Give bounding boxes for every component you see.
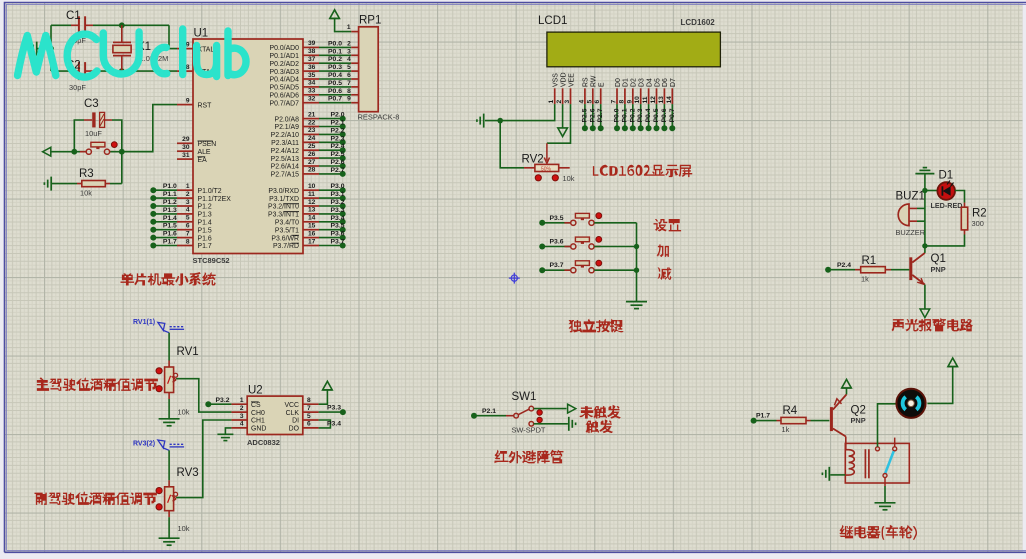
wire R4 to Q2 base bbox=[811, 420, 830, 422]
svg-text:P3.3: P3.3 bbox=[331, 207, 345, 214]
U1 pin number 21 bbox=[308, 111, 316, 118]
U1 pin name P1.7 bbox=[198, 243, 212, 250]
wire R3 top vertical bbox=[121, 152, 123, 184]
svg-text:P2.3: P2.3 bbox=[331, 135, 345, 142]
RP1 pin number 9 bbox=[347, 96, 351, 103]
wire reset left segment bbox=[51, 151, 86, 153]
svg-text:DO: DO bbox=[289, 426, 300, 433]
RP1 pin number 4 bbox=[347, 56, 351, 63]
net label P0.5 bbox=[653, 108, 660, 122]
LCD1 pin 8 D1 bbox=[624, 88, 626, 104]
svg-text:12: 12 bbox=[308, 199, 316, 206]
wire P3.2 terminal bbox=[319, 205, 343, 207]
net label P3.5 key bbox=[550, 215, 564, 222]
LCD1 pin name D2 bbox=[631, 78, 638, 87]
ground keys bus bbox=[626, 302, 647, 309]
svg-text:1: 1 bbox=[186, 183, 190, 190]
capacitor C3 electrolytic bbox=[84, 112, 112, 127]
LCD1 pin number 4 bbox=[578, 100, 585, 104]
wire BUZ1 pin2 to node column bbox=[917, 220, 925, 222]
value LED-RED bbox=[931, 201, 963, 210]
svg-text:P3.4: P3.4 bbox=[327, 421, 341, 428]
svg-text:R2: R2 bbox=[972, 208, 987, 220]
svg-text:VEE: VEE bbox=[568, 73, 575, 87]
svg-text:26: 26 bbox=[308, 151, 316, 158]
U2 pin name CS bbox=[251, 402, 261, 409]
svg-text:1: 1 bbox=[240, 397, 244, 404]
svg-text:4: 4 bbox=[240, 421, 244, 428]
U2 pin number 7 bbox=[307, 405, 311, 412]
svg-text:9: 9 bbox=[626, 100, 633, 104]
svg-text:VDD: VDD bbox=[560, 72, 567, 87]
wire Q1 emitter down bbox=[924, 285, 926, 309]
U1 pin number 3 bbox=[186, 199, 190, 206]
svg-text:P2.0/A8: P2.0/A8 bbox=[274, 116, 299, 123]
svg-text:RV3: RV3 bbox=[177, 467, 199, 479]
U1 pin number 12 bbox=[308, 199, 316, 206]
U1 pin name P0.7/AD7 bbox=[270, 100, 300, 107]
svg-text:P1.0/T2: P1.0/T2 bbox=[198, 188, 222, 195]
wire P2.4 terminal bbox=[319, 149, 343, 151]
wire P2.2 terminal bbox=[319, 133, 343, 135]
RV2 decrement marker bbox=[535, 175, 541, 181]
svg-text:P3.2: P3.2 bbox=[216, 397, 230, 404]
U1 pin 17 P3.7/RD bbox=[303, 245, 319, 247]
node P3.3 terminal bbox=[340, 409, 346, 415]
svg-text:P2.1: P2.1 bbox=[482, 408, 496, 415]
U1 pin number 37 bbox=[308, 56, 316, 63]
svg-text:27: 27 bbox=[308, 159, 316, 166]
label X1 bbox=[137, 41, 151, 53]
wire P1.6 terminal bbox=[153, 237, 177, 239]
svg-text:1: 1 bbox=[347, 24, 351, 31]
U2 pin number 5 bbox=[307, 413, 311, 420]
wire keys common bus bbox=[636, 223, 638, 302]
svg-text:P0.1/AD1: P0.1/AD1 bbox=[270, 53, 300, 60]
wire buzzer vertical node bbox=[924, 191, 926, 246]
node P3.0 terminal bbox=[340, 187, 346, 193]
value RV3 10k bbox=[178, 524, 190, 533]
svg-text:P3.5: P3.5 bbox=[331, 223, 345, 230]
svg-text:1k: 1k bbox=[861, 275, 869, 284]
LCD1 pin name E bbox=[599, 82, 606, 87]
svg-text:25: 25 bbox=[308, 143, 316, 150]
svg-text:P2.6/A14: P2.6/A14 bbox=[271, 164, 300, 171]
svg-text:4: 4 bbox=[578, 100, 585, 104]
U1 pin number 24 bbox=[308, 135, 316, 142]
LCD1 pin number 7 bbox=[611, 100, 618, 104]
key button P3.6 actuator marker bbox=[596, 237, 602, 243]
svg-text:P0.4: P0.4 bbox=[645, 108, 652, 122]
svg-text:P2.1/A9: P2.1/A9 bbox=[274, 124, 299, 131]
power terminal Q2 emitter bbox=[842, 379, 852, 388]
wire LCD pin to net P0.0 bbox=[616, 104, 618, 128]
U1 pin name P0.6/AD6 bbox=[270, 93, 300, 100]
U1 pin 28 P2.7/A15 bbox=[303, 173, 319, 175]
LCD1 pin 7 D0 bbox=[616, 88, 618, 104]
svg-text:P0.7: P0.7 bbox=[328, 96, 342, 103]
node P1.4 terminal bbox=[150, 219, 156, 225]
U1 pin name EA bbox=[198, 157, 208, 164]
svg-text:STC89C52: STC89C52 bbox=[193, 256, 230, 265]
net label P0.4 bbox=[328, 72, 342, 79]
net label P2.1 bbox=[331, 120, 345, 127]
node P3.2 terminal bbox=[340, 203, 346, 209]
node LCD net P0.3 bbox=[638, 125, 644, 131]
svg-text:P2.4/A12: P2.4/A12 bbox=[271, 148, 300, 155]
LCD1 pin number 8 bbox=[618, 100, 625, 104]
wire P0.4 to RP1 bbox=[319, 78, 351, 80]
U1 pin name P2.5/A13 bbox=[271, 156, 300, 163]
U1 pin number 27 bbox=[308, 159, 316, 166]
svg-text:17: 17 bbox=[308, 238, 316, 245]
node P1.7 terminal bbox=[150, 243, 156, 249]
svg-text:36: 36 bbox=[308, 64, 316, 71]
node P3.6 terminal bbox=[340, 235, 346, 241]
wire BUZ1 pins to node column bbox=[917, 207, 925, 209]
U1 pin 10 P3.0/RXD bbox=[303, 189, 319, 191]
wire CLK to P3.3 bbox=[319, 411, 343, 413]
net label P0.3 bbox=[637, 108, 644, 122]
svg-text:P3.6: P3.6 bbox=[550, 239, 564, 246]
LCD1 pin number 14 bbox=[666, 96, 673, 104]
svg-text:7: 7 bbox=[347, 80, 351, 87]
net label P3.6 bbox=[331, 231, 345, 238]
LCD1 pin number 11 bbox=[642, 96, 649, 103]
text LCD1602显示屏 bbox=[593, 165, 692, 177]
wire P3.7 terminal bbox=[319, 245, 343, 247]
U1 pin 13 P3.3/INT1 bbox=[303, 213, 319, 215]
svg-text:P1.6: P1.6 bbox=[163, 231, 177, 238]
wire Q2 emitter to power bbox=[846, 388, 848, 394]
svg-text:P1.5: P1.5 bbox=[198, 227, 212, 234]
svg-text:3: 3 bbox=[186, 199, 190, 206]
LCD1 pin name VSS bbox=[553, 73, 560, 87]
LCD1 pin number 2 bbox=[556, 100, 563, 104]
svg-text:P0.0/AD0: P0.0/AD0 bbox=[270, 45, 300, 52]
svg-text:CLK: CLK bbox=[286, 410, 300, 417]
LCD1 pin name D6 bbox=[662, 78, 669, 87]
svg-text:34: 34 bbox=[308, 80, 316, 87]
wire LCD pin to net P2.5 bbox=[584, 104, 586, 128]
U1 pin number 18 bbox=[182, 64, 190, 71]
svg-text:P0.0: P0.0 bbox=[614, 108, 621, 122]
wire P1.2 terminal bbox=[153, 205, 177, 207]
node LCD net P2.7 bbox=[598, 125, 604, 131]
wire reset right segment bbox=[110, 151, 153, 153]
node P1.7 terminal bbox=[751, 418, 757, 424]
net label P2.3 bbox=[331, 135, 345, 142]
label R3 bbox=[79, 168, 94, 180]
key button P3.7 actuator marker bbox=[596, 260, 602, 266]
node LCD net P2.6 bbox=[590, 125, 596, 131]
value R4 1k bbox=[782, 425, 790, 434]
svg-text:10uF: 10uF bbox=[85, 129, 102, 138]
svg-text:PNP: PNP bbox=[851, 416, 866, 425]
wire P0.6 to RP1 bbox=[319, 94, 351, 96]
svg-text:D3: D3 bbox=[639, 78, 646, 87]
RV3 top stub bbox=[168, 480, 170, 487]
U1 pin number 9 bbox=[186, 97, 190, 104]
U1 pin name P0.5/AD5 bbox=[270, 85, 300, 92]
svg-text:14: 14 bbox=[308, 215, 316, 222]
U1 pin 36 P0.3/AD3 bbox=[303, 70, 319, 72]
U1 pin name P2.0/A8 bbox=[274, 116, 299, 123]
U1 pin number 30 bbox=[182, 144, 190, 151]
svg-text:38: 38 bbox=[308, 48, 316, 55]
svg-text:RST: RST bbox=[198, 102, 213, 109]
svg-text:P2.3/A11: P2.3/A11 bbox=[271, 140, 299, 147]
value LCD1602 bbox=[681, 18, 716, 27]
label D1 bbox=[939, 170, 954, 182]
RP1 pin number 8 bbox=[347, 88, 351, 95]
node P1.2 terminal bbox=[150, 203, 156, 209]
U2 pin number 6 bbox=[307, 421, 311, 428]
U2 pin name CH0 bbox=[251, 410, 265, 417]
svg-text:21: 21 bbox=[308, 111, 316, 118]
svg-text:RV1(1): RV1(1) bbox=[133, 319, 155, 326]
terminal RV1(1) bbox=[158, 322, 184, 332]
resistor R1 bbox=[855, 267, 891, 273]
net label P2.2 bbox=[331, 127, 345, 134]
svg-text:P0.6/AD6: P0.6/AD6 bbox=[270, 93, 300, 100]
U2 pin 2 CH0 bbox=[231, 411, 247, 413]
U2 pin number 3 bbox=[240, 413, 244, 420]
svg-text:RESPACK-8: RESPACK-8 bbox=[358, 113, 400, 122]
U1 pin number 2 bbox=[186, 191, 190, 198]
U2 pin number 4 bbox=[240, 421, 244, 428]
net label P0.7 bbox=[328, 96, 342, 103]
U1 pin 7 P1.6 bbox=[177, 237, 193, 239]
svg-text:P0.4/AD4: P0.4/AD4 bbox=[270, 77, 300, 84]
net label P2.6 bbox=[589, 108, 596, 122]
key button P3.5 bbox=[564, 213, 600, 225]
SW1 toggle marker down bbox=[537, 417, 542, 422]
wire R3 right to node bbox=[110, 183, 122, 185]
U2 pin name CLK bbox=[286, 410, 300, 417]
svg-text:P3.2: P3.2 bbox=[331, 199, 345, 206]
U1 pin name P1.2 bbox=[198, 204, 212, 211]
U1 pin name P3.1/TXD bbox=[269, 196, 299, 203]
SW1 common pin stub bbox=[506, 415, 514, 417]
LCD1 pin name D3 bbox=[639, 78, 646, 87]
U1 pin name P2.1/A9 bbox=[274, 124, 299, 131]
U1 pin number 29 bbox=[182, 136, 190, 143]
value RV1 10k bbox=[178, 408, 190, 417]
U1 pin number 11 bbox=[308, 191, 315, 198]
node P2.5 terminal bbox=[340, 155, 346, 161]
wire R3 left to ground bbox=[52, 183, 77, 185]
relay core bars bbox=[865, 449, 869, 478]
U1 pin 33 P0.6/AD6 bbox=[303, 94, 319, 96]
svg-text:P2.7: P2.7 bbox=[597, 108, 604, 122]
svg-text:P3.7: P3.7 bbox=[550, 262, 564, 269]
RV2 increment marker bbox=[552, 175, 558, 181]
wire P3.7 to key bbox=[542, 269, 570, 271]
LCD1 pin 2 VDD bbox=[562, 88, 564, 104]
svg-text:10k: 10k bbox=[178, 524, 190, 533]
potentiometer RV3 increment marker bbox=[156, 488, 162, 494]
junction keys bus P3.7 bbox=[634, 268, 639, 273]
net label P0.1 bbox=[621, 108, 628, 122]
svg-text:P1.7: P1.7 bbox=[198, 243, 212, 250]
net label P0.4 bbox=[645, 108, 652, 122]
wire P3.4 terminal bbox=[319, 221, 343, 223]
terminal arrow 未触发 bbox=[568, 404, 576, 413]
RP1 pin number 1 bbox=[347, 24, 351, 31]
transistor Q1 PNP bbox=[909, 253, 925, 285]
svg-text:RV3(2): RV3(2) bbox=[133, 441, 155, 448]
U1 pin 24 P2.3/A11 bbox=[303, 141, 319, 143]
label U2 bbox=[248, 385, 263, 397]
svg-text:PNP: PNP bbox=[931, 265, 946, 274]
node LCD net P0.1 bbox=[622, 125, 628, 131]
node P1.6 terminal bbox=[150, 235, 156, 241]
label BUZ1 bbox=[896, 191, 925, 203]
wire LCD pin to net P0.1 bbox=[624, 104, 626, 128]
wire R1 to Q1 base bbox=[891, 269, 909, 271]
svg-text:37: 37 bbox=[308, 56, 316, 63]
wire P0.0 to RP1 bbox=[319, 46, 351, 48]
U1 pin name P2.3/A11 bbox=[271, 140, 299, 147]
svg-text:CH1: CH1 bbox=[251, 418, 265, 425]
U1 pin number 14 bbox=[308, 215, 316, 222]
svg-text:D1: D1 bbox=[939, 170, 954, 182]
value RESPACK-8 bbox=[358, 113, 400, 122]
wire relay coil to ground bbox=[830, 474, 845, 476]
U1 pin number 10 bbox=[308, 183, 316, 190]
wire ground net to RV2 left bbox=[500, 121, 524, 168]
wire P3.6 terminal bbox=[319, 237, 343, 239]
ground relay coil bbox=[822, 467, 829, 481]
svg-text:6: 6 bbox=[307, 421, 311, 428]
U1 pin 5 P1.4 bbox=[177, 221, 193, 223]
svg-text:P1.5: P1.5 bbox=[163, 223, 177, 230]
U1 pin number 34 bbox=[308, 80, 316, 87]
node LCD net P2.5 bbox=[582, 125, 588, 131]
svg-text:P1.3: P1.3 bbox=[163, 207, 177, 214]
svg-text:8: 8 bbox=[347, 88, 351, 95]
U1 pin number 19 bbox=[182, 41, 190, 48]
wire key P3.6 to bus bbox=[594, 246, 636, 248]
net label P2.6 bbox=[331, 159, 345, 166]
svg-text:1: 1 bbox=[548, 100, 555, 104]
node P3.7 terminal bbox=[340, 243, 346, 249]
net label P3.3 bbox=[331, 207, 345, 214]
ground LCD VSS bbox=[477, 114, 484, 128]
U1 pin 11 P3.1/TXD bbox=[303, 197, 319, 199]
svg-text:P2.4: P2.4 bbox=[837, 262, 851, 269]
LCD1 pin name D5 bbox=[654, 78, 661, 87]
wire P2.3 terminal bbox=[319, 141, 343, 143]
svg-text:24: 24 bbox=[308, 135, 316, 142]
svg-text:RV2: RV2 bbox=[522, 153, 544, 165]
svg-text:P3.6: P3.6 bbox=[331, 231, 345, 238]
svg-text:U2: U2 bbox=[248, 385, 263, 397]
wire Q1 collector up bbox=[924, 246, 926, 253]
svg-text:RP1: RP1 bbox=[359, 15, 381, 27]
net label P0.6 bbox=[328, 88, 342, 95]
wire LCD pin to net P0.7 bbox=[671, 104, 673, 128]
U1 pin number 17 bbox=[308, 238, 316, 245]
node P1.1 terminal bbox=[150, 195, 156, 201]
key button P3.5 actuator marker bbox=[596, 213, 602, 219]
wire P0.1 to RP1 bbox=[319, 54, 351, 56]
wire LCD pin to net P0.5 bbox=[656, 104, 658, 128]
U1 pin name P2.6/A14 bbox=[271, 164, 300, 171]
wire XTAL1 right vertical bbox=[169, 25, 177, 48]
label RV2 bbox=[522, 153, 544, 165]
svg-text:P0.3: P0.3 bbox=[328, 64, 342, 71]
wire XTAL top net right of C1 bbox=[93, 24, 169, 26]
wire reset to RST pin bbox=[122, 105, 177, 152]
LCD1 pin number 3 bbox=[564, 100, 571, 104]
svg-text:28: 28 bbox=[308, 167, 316, 174]
svg-text:P2.1: P2.1 bbox=[331, 120, 345, 127]
wire SW1 NC to ground bbox=[534, 423, 568, 425]
wire P2.1 to SW1 bbox=[474, 415, 506, 417]
U1 pin 1 P1.0/T2 bbox=[177, 189, 193, 191]
wire R2 to collector node bbox=[925, 235, 965, 246]
wire P0.2 to RP1 bbox=[319, 62, 351, 64]
wire U2 GND pin down bbox=[225, 428, 231, 434]
svg-text:D4: D4 bbox=[646, 78, 653, 87]
svg-text:33: 33 bbox=[308, 88, 316, 95]
wire LCD pin to net P0.4 bbox=[648, 104, 650, 128]
U1 pin 39 P0.0/AD0 bbox=[303, 46, 319, 48]
wire Q2 collector to relay coil bbox=[845, 437, 847, 450]
svg-text:P1.2: P1.2 bbox=[198, 204, 212, 211]
U1 pin name P3.2/INT0 bbox=[268, 204, 299, 211]
ground SW1 NC bbox=[569, 417, 576, 431]
svg-text:P0.6: P0.6 bbox=[661, 108, 668, 122]
U1 pin name XTAL1 bbox=[198, 46, 219, 53]
svg-text:8: 8 bbox=[186, 238, 190, 245]
svg-text:GND: GND bbox=[251, 426, 266, 433]
U1 pin number 16 bbox=[308, 230, 316, 237]
net label P0.6 bbox=[661, 108, 668, 122]
label SW1 bbox=[512, 391, 537, 403]
svg-text:2: 2 bbox=[186, 191, 190, 198]
potentiometer RV1 ref bbox=[177, 346, 199, 358]
svg-text:CS: CS bbox=[251, 402, 261, 409]
label C1 bbox=[66, 10, 81, 22]
resistor R4 bbox=[777, 417, 811, 423]
LCD1 pin number 9 bbox=[626, 100, 633, 104]
key button P3.6 bbox=[564, 237, 600, 249]
svg-text:11: 11 bbox=[642, 96, 649, 103]
net label P3.0 bbox=[331, 183, 345, 190]
net label P2.7 bbox=[597, 108, 604, 122]
wire P3.5 to key bbox=[542, 222, 570, 224]
svg-text:D6: D6 bbox=[662, 78, 669, 87]
U1 pin name P3.5/T1 bbox=[275, 227, 299, 234]
junction crystal ground tap bbox=[48, 46, 54, 52]
resistor pack RP1 bbox=[359, 27, 379, 112]
LCD1 pin number 10 bbox=[634, 96, 641, 104]
net label P3.4 bbox=[327, 421, 341, 428]
value R1 1k bbox=[861, 275, 869, 284]
svg-text:7: 7 bbox=[611, 100, 618, 104]
net label P1.5 bbox=[163, 223, 177, 230]
net label P2.5 bbox=[331, 151, 345, 158]
net label P2.7 bbox=[331, 167, 345, 174]
RP1 pin number 7 bbox=[347, 80, 351, 87]
net label P3.4 bbox=[331, 215, 345, 222]
wire XTAL top net bbox=[51, 24, 71, 26]
RV2 wiper arrow lead bbox=[544, 143, 549, 163]
U1 pin name P0.2/AD2 bbox=[270, 61, 300, 68]
